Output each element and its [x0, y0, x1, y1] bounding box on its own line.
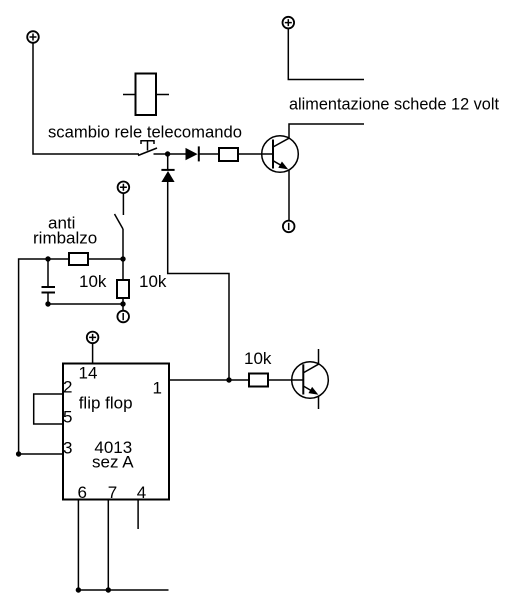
svg-text:flip flop: flip flop [79, 394, 133, 413]
IC U1 4013 flip flop [63, 364, 169, 500]
wire node A down to diode D2 [167, 154, 169, 170]
wire S1 to junction node A [154, 153, 168, 155]
transistor Q1 [262, 136, 299, 173]
svg-text:6: 6 [78, 483, 87, 502]
resistor R1 [219, 148, 238, 161]
wire Q1 collector to 12 volt feed [289, 124, 364, 138]
wire node D to node E [48, 303, 123, 305]
resistor R3 [117, 280, 129, 298]
svg-text:3: 3 [63, 439, 72, 458]
resistor R2 [69, 253, 88, 265]
junction node D [45, 301, 50, 306]
wire D2 to flip flop pin 1 net [168, 182, 229, 380]
wire pin4 stub [137, 500, 139, 530]
wire D1 to resistor R1 [199, 153, 219, 155]
wire node A to diode D1 [168, 153, 186, 155]
svg-text:10k: 10k [244, 349, 272, 368]
junction node A [165, 151, 170, 156]
wire node E to terminal [122, 304, 124, 311]
junction dot pin1 net [226, 377, 231, 382]
diode D1 [186, 146, 199, 161]
power symbol anti-rimbalzo [118, 182, 130, 194]
wire R4 to base of Q2 [268, 379, 303, 381]
pushbutton switch S1 [138, 141, 157, 156]
wire pin7 down [107, 500, 109, 591]
wire S2 to junction node B [122, 229, 124, 259]
bottom wire [78, 589, 168, 591]
resistor R4 [249, 374, 268, 387]
junction node C [45, 256, 50, 261]
svg-text:7: 7 [108, 483, 117, 502]
wire pin2 to pin5 loop [34, 394, 63, 424]
wire +V top-left down to switch S1 [33, 43, 139, 154]
relay coil K1 [123, 74, 169, 116]
diode D2 [161, 170, 174, 182]
wire C1 to node D [47, 294, 49, 305]
power symbol +V top-right [283, 17, 295, 29]
svg-text:scambio rele telecomando: scambio rele telecomando [48, 123, 242, 142]
junction node B [120, 256, 125, 261]
svg-text:sez A: sez A [92, 453, 134, 472]
wire power to IC pin 14 [92, 343, 94, 363]
svg-text:10k: 10k [79, 272, 107, 291]
wire pin6 down [77, 500, 79, 591]
junction dot pin7 [106, 587, 111, 592]
svg-text:rimbalzo: rimbalzo [33, 229, 97, 248]
svg-text:14: 14 [79, 364, 98, 383]
wire R1 to base of Q1 [238, 153, 273, 155]
wire Q2 emitter stub [318, 396, 320, 409]
junction dot pin6 [76, 587, 81, 592]
wire node B to resistor R3 [122, 259, 124, 280]
terminal I below R3 [117, 311, 129, 323]
svg-text:2: 2 [63, 378, 72, 397]
svg-text:alimentazione schede 12 volt: alimentazione schede 12 volt [289, 95, 499, 114]
wire R2 to node C [48, 258, 69, 260]
wire pin1 to resistor R4 [169, 379, 249, 381]
wire Q1 emitter to terminal [288, 170, 290, 221]
junction dot pin3 rail [16, 451, 21, 456]
wire +V top-right [288, 28, 364, 79]
power symbol above IC [87, 332, 99, 344]
switch S2 [115, 214, 124, 229]
capacitor C1 [42, 287, 56, 293]
wire power to switch S2 [122, 193, 124, 215]
power symbol +V top-left [27, 31, 39, 43]
transistor Q2 [292, 362, 329, 399]
svg-text:1: 1 [153, 379, 162, 398]
svg-text:10k: 10k [139, 272, 167, 291]
svg-text:5: 5 [63, 408, 72, 427]
wire R3 to node E [122, 298, 124, 304]
wire node C to capacitor C1 [47, 259, 49, 286]
wire Q2 collector stub [318, 349, 320, 364]
wire node B to resistor R2 [88, 258, 123, 260]
svg-text:4: 4 [137, 483, 146, 502]
wire node C to left rail down to pin 3 [19, 259, 48, 454]
terminal I below Q1 [283, 221, 295, 233]
junction node E [120, 301, 125, 306]
wire pin3 to left rail [19, 453, 63, 455]
